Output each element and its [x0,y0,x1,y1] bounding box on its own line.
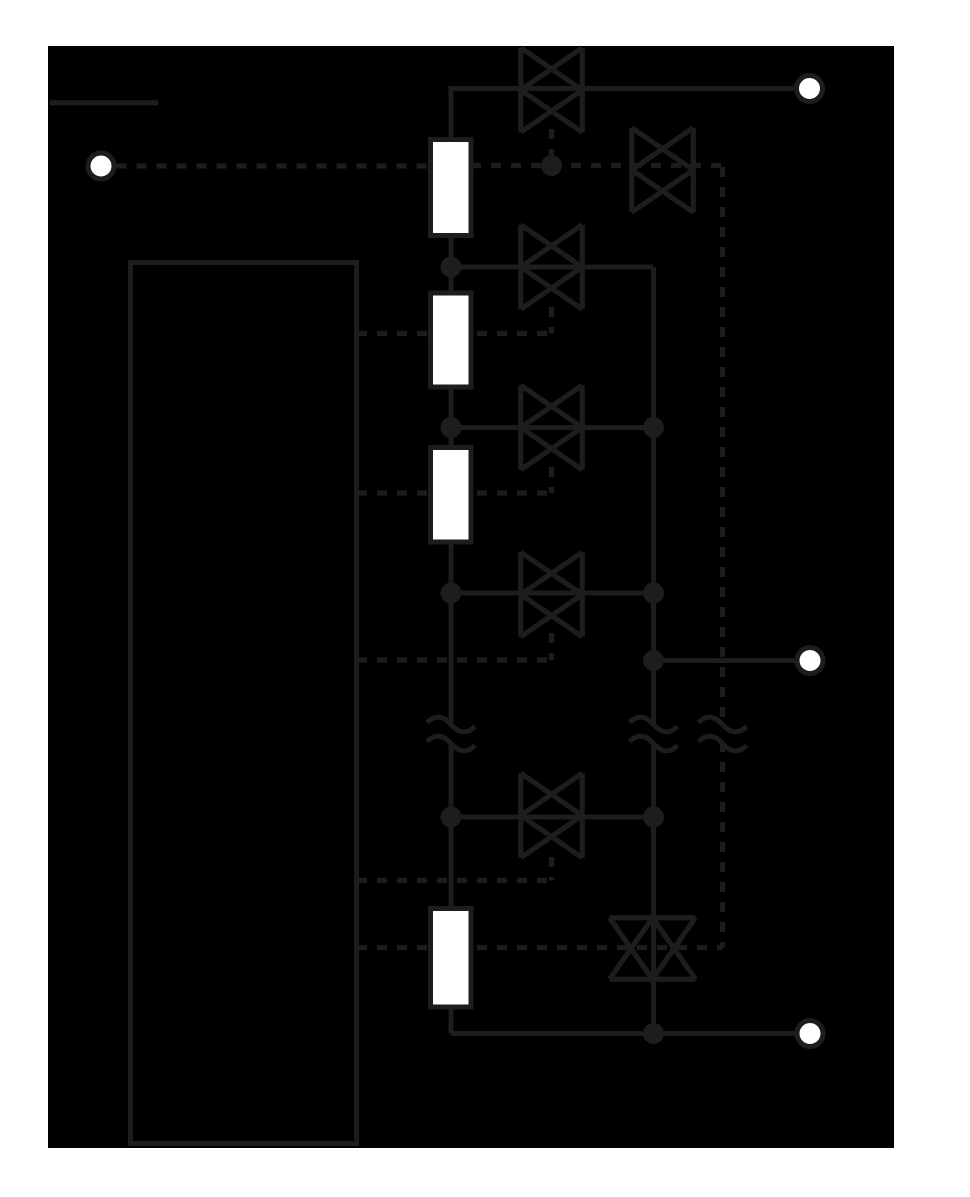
wire: port P3 stub [654,658,797,663]
control line (dashed) drop below valve V5 [549,633,554,660]
dashed riser at right [720,167,725,948]
resistor R1 [431,140,472,236]
valve V2 [632,128,694,213]
control line (dashed) drop below valve V4 [549,467,554,493]
resistor R3 [431,448,472,543]
resistor R4 [431,909,472,1008]
control line (dashed) from port P1 across to dashed riser [117,163,723,169]
junction left C [441,257,462,278]
wire: top pipe from corner to port P2 [451,89,795,140]
figure tick line top-left [50,100,158,105]
port P3 [797,648,823,674]
wire: branch F line [451,815,654,820]
wire: left bus segments [449,236,454,1034]
wire: branch C line [451,265,654,270]
port P4 [797,1021,823,1047]
port P2 [797,76,823,102]
control line (dashed) drop below valve V3 [549,307,554,334]
valve V6 [521,773,583,858]
wire: right bus lower [651,742,656,1034]
junction right E [643,583,664,604]
junction right P3 [643,650,664,671]
control line (dashed) pilot2 to resistor R2 [357,331,552,336]
junction right F [643,807,664,828]
wire: right bus upper [651,267,656,726]
control line (dashed) pilot3 to resistor R3 [357,490,552,495]
break mark left bus [427,717,475,751]
valve V4 [521,385,583,470]
wire: branch E line [451,591,654,596]
junction bottom [643,1023,664,1044]
heat exchanger block (large rectangle) [131,263,357,1144]
control line (dashed) pilot6 through resistor R4 to valve V7 [357,945,723,950]
wire: bottom pipe to port P4 [451,1031,796,1036]
valve V1 [521,48,583,133]
control line (dashed) pilot drop below valve V1 [549,129,554,160]
valve V7 [610,918,696,980]
break mark right bus [630,717,678,751]
junction left E [441,583,462,604]
break mark dashed riser [699,717,747,751]
control line (dashed) pilot5 [357,878,552,883]
valve V5 [521,552,583,637]
port P1 [88,153,114,179]
junction left F [441,807,462,828]
control line (dashed) drop below valve V6 [549,857,554,881]
control line (dashed) pilot4 [357,657,552,662]
wire: branch D line [451,425,654,430]
resistor R2 [431,293,472,387]
junction left D [441,417,462,438]
junction on pilot line [541,155,562,176]
valve V3 [521,225,583,310]
junction right D [643,417,664,438]
